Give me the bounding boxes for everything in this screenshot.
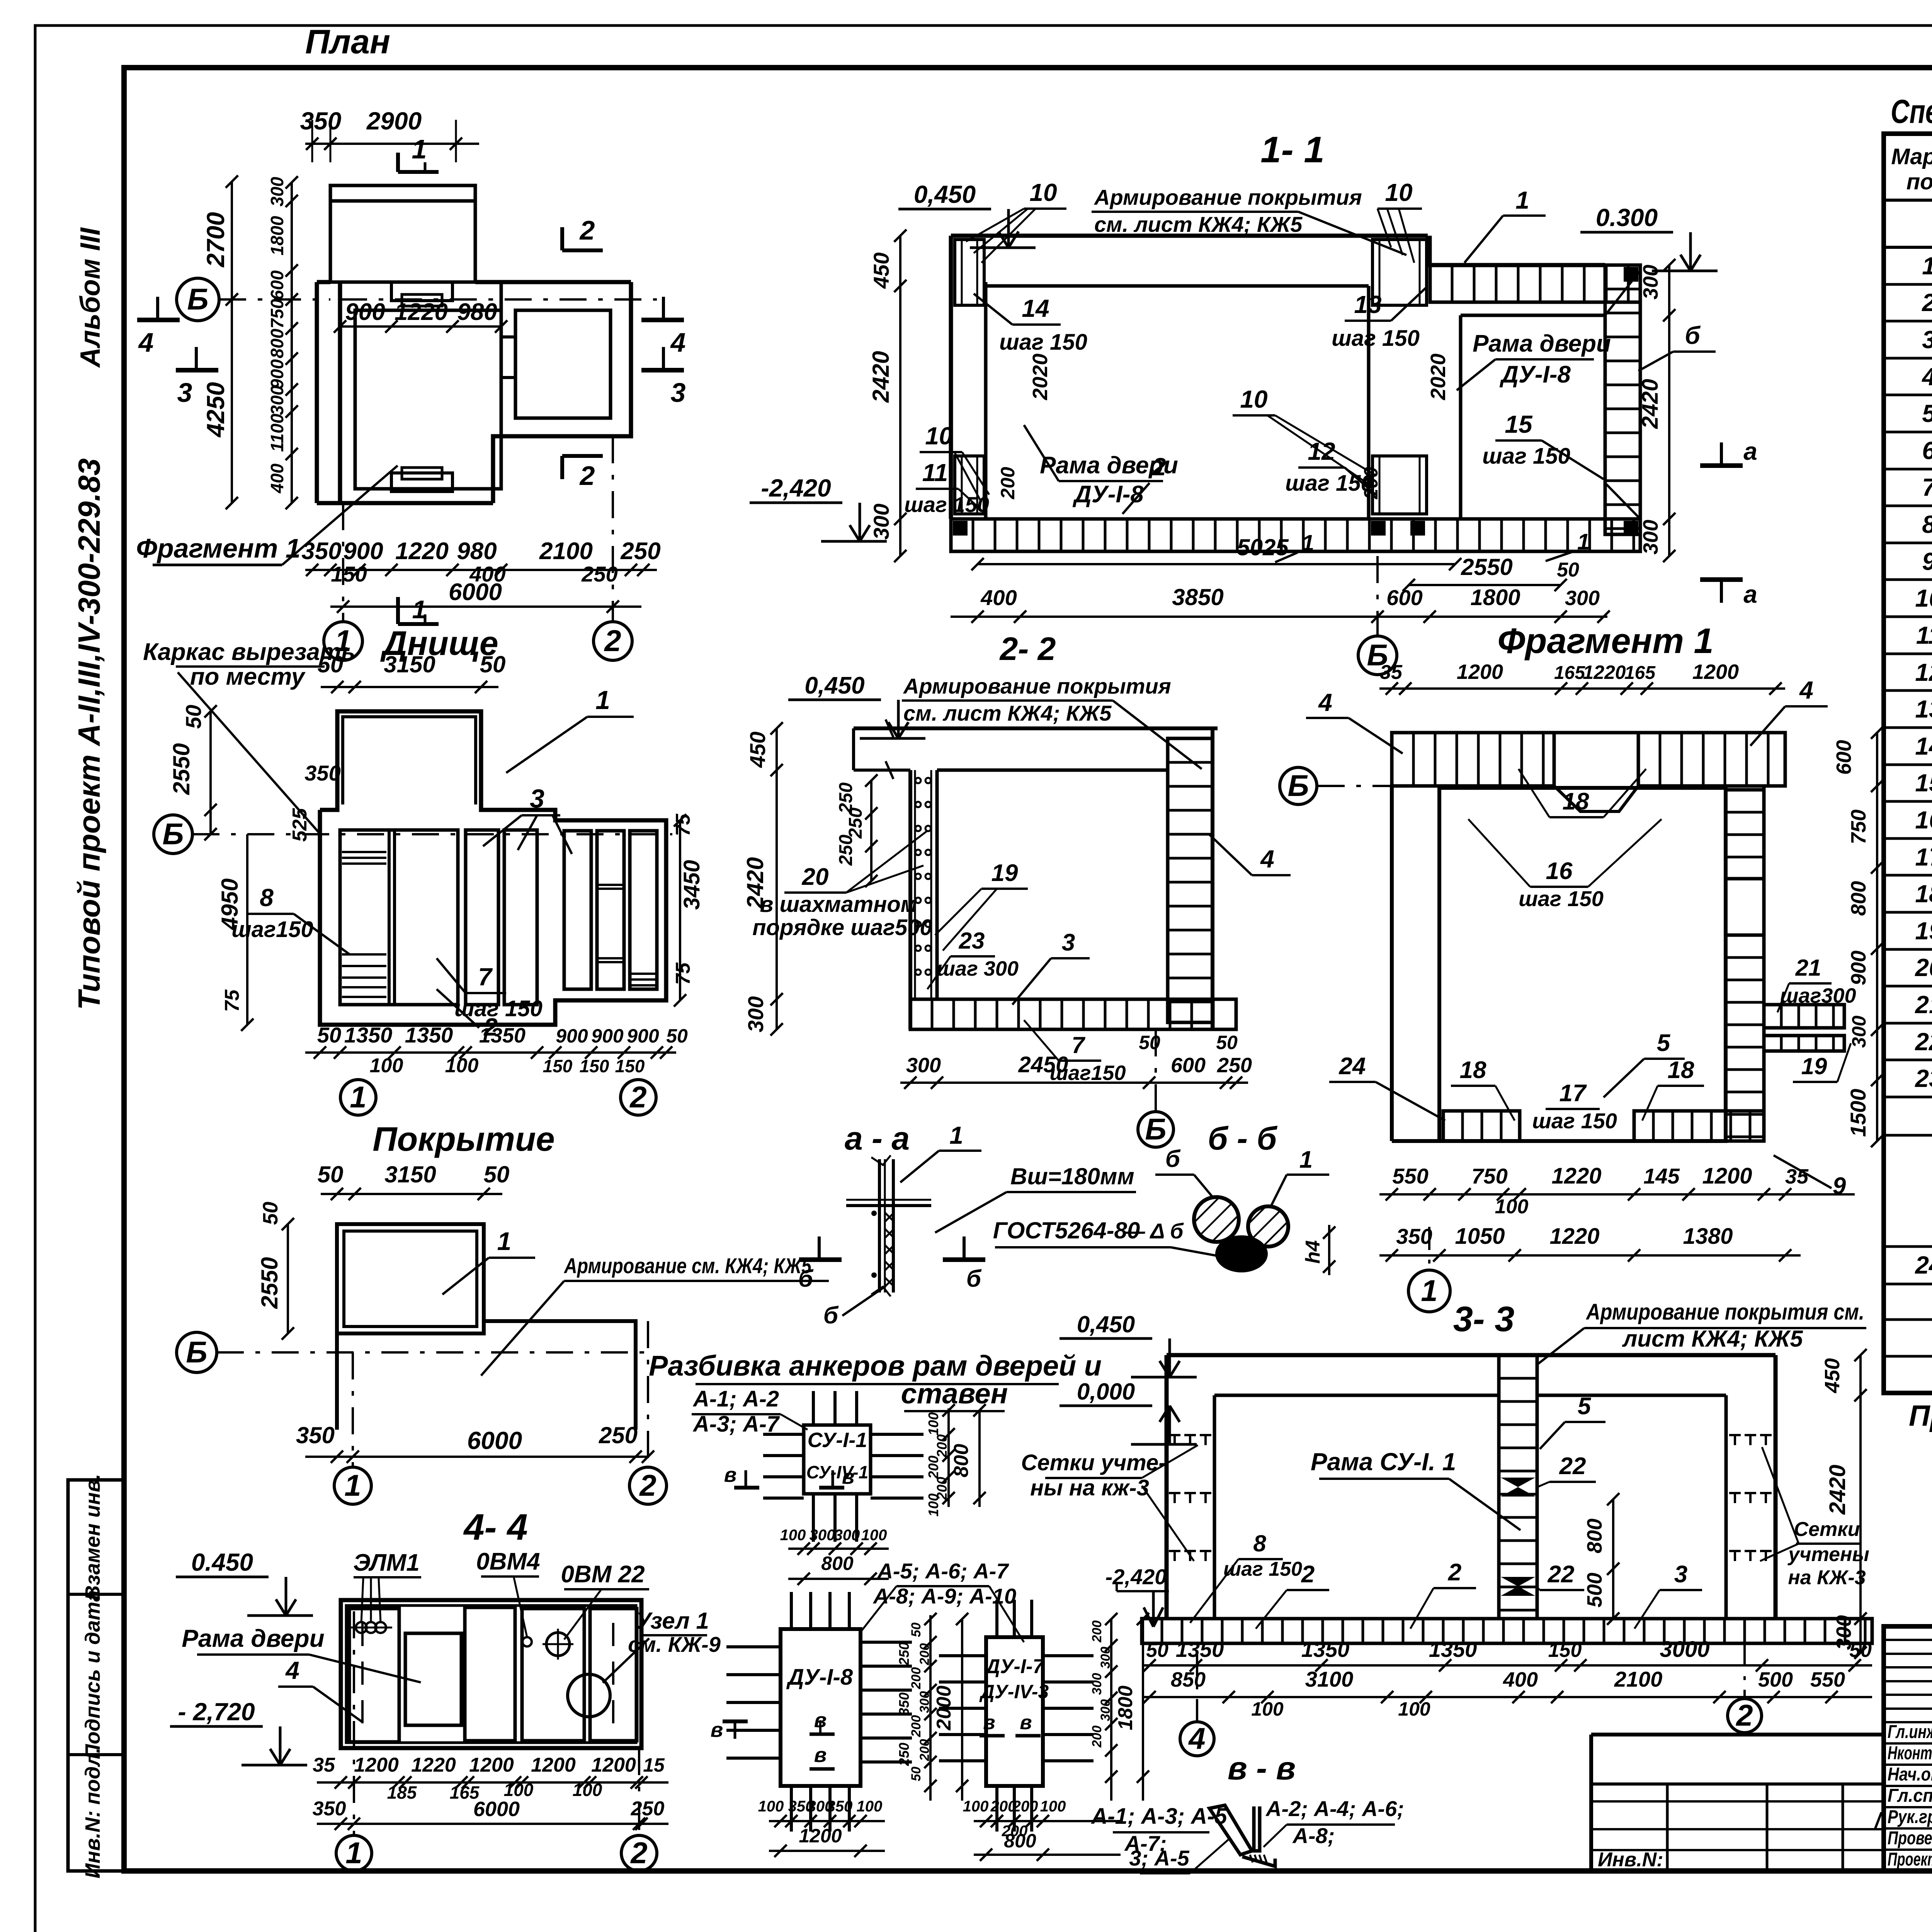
svg-text:в: в [983, 1711, 995, 1734]
svg-text:на КЖ-3: на КЖ-3 [1788, 1566, 1866, 1589]
svg-text:-2,420: -2,420 [761, 474, 831, 502]
svg-text:250: 250 [599, 1422, 638, 1448]
покрытие top dims [318, 1162, 510, 1200]
4-4 level 0.450 [176, 1548, 313, 1616]
svg-text:100: 100 [925, 1493, 941, 1517]
svg-text:А-2; А-4; А-6;: А-2; А-4; А-6; [1265, 1796, 1404, 1821]
svg-text:24: 24 [1915, 1251, 1932, 1279]
svg-text:850: 850 [1171, 1668, 1206, 1691]
svg-text:1: 1 [1515, 186, 1529, 214]
svg-text:1350: 1350 [405, 1023, 453, 1047]
svg-text:2: 2 [629, 1080, 646, 1114]
svg-text:500: 500 [1583, 1573, 1606, 1607]
svg-text:145: 145 [1643, 1164, 1680, 1188]
svg-text:350: 350 [304, 761, 340, 785]
1-1 outline [951, 236, 1605, 519]
svg-text:2420: 2420 [1638, 379, 1663, 429]
fragment top dims [1379, 660, 1785, 695]
svg-text:3: 3 [671, 378, 686, 408]
примечания note [1909, 1400, 1932, 1432]
svg-text:5: 5 [1657, 1030, 1671, 1056]
anchor label А-1;А-3;А-5 [1090, 1804, 1227, 1855]
fragment label 9 [1774, 1155, 1846, 1199]
план interior dims 900/1220/980 [334, 299, 507, 333]
svg-text:16: 16 [1915, 806, 1932, 834]
fragment axis circle 1 [1428, 1227, 1430, 1270]
svg-text:СУ-I-1: СУ-I-1 [808, 1429, 867, 1452]
svg-text:Подпись и дата: Подпись и дата [81, 1590, 104, 1759]
3-3 axis circles 4,2 [1180, 1653, 1214, 1756]
svg-text:150: 150 [331, 562, 367, 586]
spec table title [1891, 93, 1932, 130]
3-3 label 8 [1190, 1531, 1302, 1623]
3-3 bottom band [1142, 1619, 1872, 1643]
svg-text:3: 3 [1062, 929, 1075, 956]
3-3 bottom dim row 2 [1142, 1667, 1872, 1720]
4-4 level -2.720 [170, 1698, 307, 1765]
3-3 сетки label right [1760, 1447, 1869, 1589]
svg-text:1200: 1200 [799, 1825, 842, 1847]
svg-text:1: 1 [497, 1227, 512, 1255]
svg-text:10: 10 [1029, 179, 1057, 206]
svg-text:165: 165 [1624, 663, 1656, 683]
svg-text:800: 800 [1847, 881, 1870, 916]
svg-text:300: 300 [1639, 265, 1662, 299]
svg-text:0ВМ 22: 0ВМ 22 [561, 1561, 645, 1588]
svg-text:План: План [305, 22, 390, 61]
svg-text:50: 50 [317, 1023, 341, 1047]
а-а label 1 [900, 1121, 981, 1182]
svg-text:2900: 2900 [366, 107, 422, 135]
1-1 label 10 left [966, 179, 1066, 263]
в-в bars [1209, 1805, 1275, 1866]
svg-text:в - в: в - в [1228, 1750, 1296, 1786]
svg-text:24: 24 [1339, 1053, 1366, 1080]
1-1 rotated dims left [868, 230, 906, 562]
fragment right rotated dims [1832, 726, 1883, 1147]
svg-text:16: 16 [1546, 858, 1573, 884]
1-1 рама двери left [1024, 425, 1178, 508]
svg-text:Нач.отд.: Нач.отд. [1888, 1764, 1932, 1785]
svg-text:1200: 1200 [591, 1754, 636, 1776]
fragment right protrusion [1764, 1005, 1844, 1051]
svg-text:100: 100 [963, 1798, 989, 1815]
anchor СУ-I-1 box [763, 1391, 923, 1542]
а-а Вш label [935, 1163, 1136, 1233]
3-3 bottom dim row 1 [1142, 1637, 1872, 1672]
svg-text:100: 100 [861, 1527, 887, 1544]
svg-text:2020: 2020 [1029, 354, 1052, 400]
svg-text:ЭЛМ1: ЭЛМ1 [353, 1549, 420, 1576]
svg-text:3150: 3150 [384, 1162, 436, 1187]
svg-text:100: 100 [1495, 1196, 1529, 1218]
spec data rows [1915, 246, 1932, 1092]
2-2 dims left [742, 722, 783, 1036]
svg-text:Б: Б [186, 1335, 207, 1369]
1-1 label 6 right [1638, 321, 1716, 371]
svg-text:Фрагмент 1: Фрагмент 1 [1497, 621, 1713, 661]
section title 3-3 [1453, 1299, 1515, 1339]
svg-text:3850: 3850 [1172, 584, 1223, 610]
fragment bottom dims [1379, 1163, 1855, 1218]
svg-text:300: 300 [869, 503, 893, 539]
svg-text:450: 450 [869, 252, 893, 289]
svg-text:11: 11 [922, 459, 948, 486]
svg-text:Спецификация элементов к схема: Спецификация элементов к схемам располож… [1891, 93, 1932, 130]
svg-text:300: 300 [1848, 1015, 1870, 1048]
svg-text:Взамен инв.: Взамен инв. [81, 1474, 104, 1600]
svg-text:300: 300 [906, 1054, 941, 1077]
2-2 label 23 [927, 928, 1019, 989]
3-3 level 2.420 mid [0, 0, 0, 0]
svg-text:б: б [798, 1265, 814, 1292]
section title 2-2 [999, 631, 1056, 667]
1-1 level 0.300 right [1580, 204, 1718, 271]
svg-text:а - а: а - а [845, 1120, 910, 1156]
svg-text:1: 1 [1302, 531, 1314, 556]
svg-text:Гл.спец.: Гл.спец. [1888, 1786, 1932, 1806]
svg-text:50: 50 [1139, 1032, 1160, 1053]
svg-text:Гл.инж.пр: Гл.инж.пр [1888, 1722, 1932, 1742]
3-3 label рама СУ-I-1 [1311, 1448, 1520, 1530]
svg-text:1350: 1350 [479, 1024, 526, 1047]
svg-text:Б: Б [1145, 1112, 1166, 1146]
svg-text:18: 18 [1915, 880, 1932, 908]
svg-text:300: 300 [1639, 520, 1662, 554]
anchor label А-5...А-10 [862, 1559, 1024, 1642]
svg-text:600: 600 [1832, 740, 1855, 775]
anchor СУ-I-1 в mark [724, 1463, 855, 1488]
svg-text:3; А-5: 3; А-5 [1129, 1846, 1189, 1870]
svg-text:300: 300 [1090, 1673, 1104, 1695]
svg-text:б - б: б - б [1208, 1120, 1278, 1156]
svg-text:— Δ б: — Δ б [1123, 1219, 1184, 1243]
svg-text:100: 100 [925, 1412, 941, 1435]
svg-text:165: 165 [1554, 663, 1585, 683]
svg-text:50: 50 [318, 651, 344, 677]
svg-text:Инв.N:: Инв.N: [1598, 1849, 1663, 1871]
svg-text:2: 2 [630, 1836, 647, 1870]
4-4 door panels [349, 1607, 637, 1742]
svg-text:900: 900 [1847, 951, 1870, 985]
svg-text:100: 100 [573, 1780, 602, 1800]
svg-text:600: 600 [1386, 585, 1422, 610]
2-2 label 3 [1012, 929, 1090, 1005]
план main outline [317, 282, 631, 503]
row 24 [1915, 1244, 1932, 1282]
2-2 small dims 250 [836, 774, 878, 887]
svg-text:в: в [711, 1718, 723, 1742]
svg-text:3000: 3000 [1660, 1637, 1709, 1662]
svg-text:б: б [966, 1265, 982, 1292]
svg-text:1: 1 [412, 134, 427, 164]
svg-text:1: 1 [350, 1080, 366, 1114]
svg-text:450: 450 [745, 731, 770, 768]
svg-text:200: 200 [917, 1643, 932, 1666]
svg-text:50: 50 [1146, 1639, 1168, 1662]
fragment label 17 [1532, 1080, 1617, 1133]
svg-text:4: 4 [1260, 845, 1274, 873]
svg-text:1800: 1800 [267, 216, 287, 255]
svg-text:600: 600 [267, 270, 287, 300]
2-2 label 7 [1024, 1020, 1126, 1085]
svg-text:1: 1 [1922, 252, 1932, 280]
1-1 label 10 mid-bottom [1233, 385, 1376, 485]
svg-text:350: 350 [300, 107, 342, 135]
svg-text:Армирование см. КЖ4; КЖ5: Армирование см. КЖ4; КЖ5 [563, 1253, 811, 1278]
план bottom dims [301, 538, 660, 613]
svg-text:50: 50 [484, 1162, 510, 1187]
fragment main walls [1392, 786, 1726, 1141]
svg-text:500: 500 [1758, 1668, 1793, 1691]
svg-text:Узел 1: Узел 1 [636, 1608, 709, 1634]
svg-text:2: 2 [1735, 1698, 1753, 1732]
1-1 label 11 [904, 459, 989, 517]
покрытие bottom dims [296, 1422, 654, 1463]
svg-text:б: б [1165, 1146, 1181, 1172]
план axis Б [177, 278, 657, 321]
svg-text:900: 900 [591, 1025, 624, 1047]
svg-text:Альбом III: Альбом III [75, 227, 106, 368]
3-3 right rotated dims [1821, 1349, 1867, 1659]
1-1 rotated dims right [1638, 259, 1675, 562]
svg-text:50: 50 [318, 1162, 344, 1187]
3-3 dims 800/500 [1583, 1493, 1619, 1625]
покрытие axis Б [177, 1332, 649, 1372]
1-1 label 10 bottom-left [920, 422, 989, 502]
svg-text:см. лист КЖ4; КЖ5: см. лист КЖ4; КЖ5 [1094, 212, 1303, 236]
svg-text:ДУ-I-8: ДУ-I-8 [786, 1665, 853, 1690]
svg-text:1200: 1200 [469, 1754, 514, 1776]
3-3 labels 22 [1536, 1453, 1596, 1488]
svg-text:в: в [814, 1743, 827, 1767]
svg-text:б: б [1685, 321, 1701, 349]
svg-text:Разбивка анкеров рам дверей и: Разбивка анкеров рам дверей и [649, 1350, 1102, 1382]
svg-text:250: 250 [631, 1798, 665, 1820]
svg-text:75: 75 [672, 962, 694, 985]
svg-text:400: 400 [980, 585, 1017, 610]
svg-text:100: 100 [758, 1798, 784, 1815]
svg-text:Типовой проект А-II,III,IV-300: Типовой проект А-II,III,IV-300-229.83 [72, 458, 106, 1010]
svg-text:350: 350 [313, 1798, 346, 1820]
4-4 label 4 [278, 1656, 362, 1722]
3-3 labels 2,2,3 [1256, 1561, 1329, 1629]
svg-text:1- 1: 1- 1 [1260, 129, 1324, 170]
svg-text:1220: 1220 [395, 538, 449, 565]
svg-text:Б: Б [1287, 769, 1309, 803]
svg-text:200: 200 [925, 1456, 941, 1479]
svg-text:900: 900 [627, 1025, 659, 1047]
1-1 right wall ladder [1605, 265, 1640, 534]
svg-text:10: 10 [925, 422, 952, 450]
3-3 outline [1167, 1355, 1776, 1619]
svg-text:1800: 1800 [1114, 1685, 1137, 1730]
план tambour outline [330, 185, 475, 282]
svg-text:200: 200 [917, 1739, 932, 1762]
svg-text:3: 3 [530, 784, 544, 813]
1-1 top right ladder band [1430, 265, 1640, 302]
svg-text:поз.: поз. [1906, 169, 1932, 194]
svg-text:600: 600 [1171, 1054, 1206, 1077]
svg-text:А-5; А-6; А-7: А-5; А-6; А-7 [876, 1559, 1009, 1583]
svg-text:Фрагмент 1: Фрагмент 1 [136, 533, 301, 563]
svg-text:50: 50 [480, 651, 506, 677]
svg-text:Примечания см. лист КЖ -: Примечания см. лист КЖ - 9 [1909, 1400, 1932, 1432]
svg-text:250: 250 [845, 808, 866, 839]
svg-text:3- 3: 3- 3 [1453, 1299, 1515, 1339]
svg-text:3: 3 [1674, 1561, 1687, 1588]
svg-text:б: б [823, 1302, 839, 1329]
svg-text:Проектир.: Проектир. [1888, 1849, 1932, 1870]
svg-text:980: 980 [457, 538, 497, 565]
level -2,420 near 3-3 left [1105, 1565, 1169, 1627]
3-3 pillar bowties [1501, 1478, 1535, 1596]
1-1 label 14 [974, 294, 1087, 355]
а-а detail drawing [846, 1155, 931, 1296]
svg-text:100: 100 [780, 1527, 806, 1544]
svg-text:в: в [724, 1463, 737, 1486]
detail title а-а [845, 1120, 910, 1156]
svg-text:ГОСТ5264-80: ГОСТ5264-80 [993, 1218, 1140, 1243]
1-1 label 2 [1122, 453, 1166, 514]
svg-text:10: 10 [1385, 179, 1412, 206]
svg-text:14: 14 [1022, 294, 1049, 322]
2-2 label 20 [752, 831, 932, 940]
section mark 1 top [398, 134, 439, 172]
svg-text:1200: 1200 [531, 1754, 576, 1776]
svg-text:300: 300 [267, 177, 287, 206]
1-1 label 12 [1285, 437, 1376, 496]
svg-text:ДУ-I-7: ДУ-I-7 [984, 1655, 1045, 1678]
svg-text:1220: 1220 [395, 299, 448, 325]
план top dimension 350/2900 [300, 107, 479, 162]
anchor ДУ-I-8 box [726, 1592, 912, 1832]
svg-text:13: 13 [1354, 291, 1381, 318]
svg-text:2020: 2020 [1427, 354, 1450, 400]
view title 4-4 [463, 1507, 527, 1548]
svg-text:9: 9 [1922, 548, 1932, 575]
4-4 0ВМ22 label [543, 1561, 649, 1660]
svg-text:8: 8 [1253, 1531, 1266, 1556]
svg-text:ДУ-IV-3: ДУ-IV-3 [979, 1681, 1049, 1702]
svg-text:400: 400 [1503, 1668, 1538, 1691]
svg-text:200: 200 [934, 1434, 950, 1458]
2-2 left rebar wall dots [915, 770, 931, 999]
днище outline [320, 711, 666, 1025]
svg-text:Б: Б [162, 817, 184, 851]
svg-text:50: 50 [909, 1622, 923, 1637]
svg-text:19: 19 [1801, 1053, 1827, 1079]
svg-text:1: 1 [949, 1121, 963, 1149]
svg-text:1: 1 [1421, 1274, 1437, 1308]
4-4 bottom dims [313, 1754, 668, 1830]
svg-text:150: 150 [615, 1056, 645, 1076]
svg-text:1350: 1350 [1301, 1637, 1350, 1662]
svg-text:18: 18 [1668, 1057, 1694, 1083]
svg-text:350: 350 [296, 1422, 335, 1448]
1-1 rotated dims inner [997, 354, 1450, 500]
svg-text:0,450: 0,450 [914, 180, 976, 208]
svg-text:3: 3 [177, 378, 192, 408]
4-4 ЭЛМ1 label [350, 1549, 421, 1633]
svg-text:185: 185 [387, 1782, 417, 1803]
1-1 label 15 [1482, 410, 1604, 479]
svg-text:35: 35 [1785, 1165, 1809, 1188]
svg-text:980: 980 [457, 299, 497, 325]
svg-text:4- 4: 4- 4 [463, 1507, 527, 1548]
svg-text:2100: 2100 [1614, 1667, 1663, 1691]
svg-text:400: 400 [267, 463, 287, 493]
днище left dims [168, 705, 341, 1031]
svg-text:2: 2 [579, 215, 595, 245]
anchor СУ-I-1 label А-1;А-2 [692, 1386, 808, 1437]
svg-text:200: 200 [997, 467, 1019, 500]
2-2 армирование label [902, 674, 1202, 769]
fragment labels 4 [1306, 689, 1403, 753]
план section marks 4,3 right [641, 297, 686, 408]
svg-text:3100: 3100 [1305, 1667, 1354, 1691]
svg-text:525: 525 [289, 808, 311, 842]
svg-text:800: 800 [1004, 1830, 1036, 1852]
svg-text:шаг300: шаг300 [1780, 984, 1856, 1007]
svg-text:ны на кж-3: ны на кж-3 [1030, 1475, 1149, 1500]
svg-text:1: 1 [1577, 529, 1590, 554]
svg-text:7: 7 [1922, 473, 1932, 501]
svg-text:800: 800 [950, 1444, 973, 1478]
svg-text:а: а [1743, 437, 1757, 465]
svg-text:4: 4 [1921, 363, 1932, 391]
svg-text:6000: 6000 [473, 1798, 520, 1821]
detail title б-б [1208, 1120, 1278, 1156]
3-3 армирование label [1538, 1299, 1866, 1364]
svg-text:шаг 150: шаг 150 [1519, 886, 1604, 911]
svg-text:2: 2 [604, 624, 621, 658]
svg-text:150: 150 [580, 1056, 609, 1076]
svg-text:Сетки: Сетки [1794, 1518, 1860, 1541]
svg-text:150: 150 [1548, 1639, 1582, 1662]
svg-text:300: 300 [267, 385, 287, 415]
svg-text:1200: 1200 [1702, 1163, 1752, 1189]
3-3 central pillar ladder [1499, 1355, 1537, 1619]
днище right dims [672, 813, 704, 1007]
svg-text:Покрытие: Покрытие [372, 1120, 555, 1158]
svg-text:2- 2: 2- 2 [999, 631, 1056, 667]
fragment label 18 bottom-left [1451, 1057, 1515, 1121]
svg-text:900: 900 [556, 1025, 588, 1047]
title block outer [1884, 1626, 1932, 1871]
2-2 label 19 [935, 860, 1028, 951]
а-а б cut marks [798, 1236, 985, 1292]
svg-text:учтены: учтены [1787, 1543, 1869, 1566]
fragment label 24 [1329, 1053, 1445, 1121]
svg-text:2: 2 [1152, 453, 1166, 481]
svg-text:0,450: 0,450 [1077, 1311, 1135, 1337]
spec table header [1891, 144, 1932, 194]
2-2 axis Б bottom [1138, 1029, 1173, 1147]
svg-text:20: 20 [802, 864, 829, 890]
1-1 axis Б bottom [1358, 556, 1397, 675]
svg-text:300: 300 [810, 1527, 835, 1544]
svg-text:в: в [1020, 1711, 1032, 1734]
svg-text:1220: 1220 [1583, 662, 1626, 683]
svg-text:2550: 2550 [168, 743, 194, 795]
svg-text:0ВМ4: 0ВМ4 [476, 1548, 540, 1575]
left margin stamp: project code [72, 458, 106, 1010]
svg-text:23: 23 [1915, 1065, 1932, 1092]
svg-text:1: 1 [345, 1836, 362, 1870]
svg-text:шаг 150: шаг 150 [1332, 326, 1420, 351]
svg-text:8: 8 [260, 884, 274, 912]
